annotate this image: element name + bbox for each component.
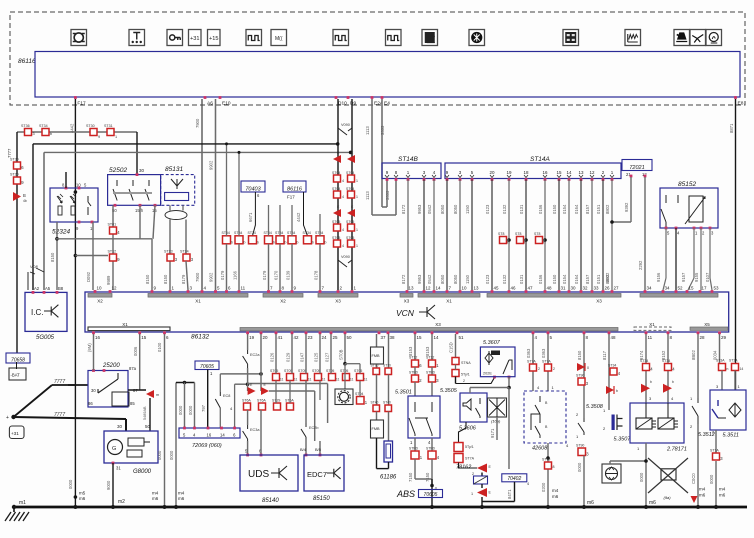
svg-text:ST30: ST30 [10, 158, 19, 162]
svg-text:13: 13 [474, 286, 480, 291]
svg-text:7150: 7150 [425, 472, 430, 482]
svg-text:47: 47 [528, 286, 534, 291]
svg-text:B: B [23, 193, 26, 198]
svg-text:ST05: ST05 [340, 369, 348, 373]
svg-text:EC3a: EC3a [250, 428, 260, 432]
svg-text:72021: 72021 [629, 165, 644, 171]
svg-text:13: 13 [578, 170, 584, 175]
svg-text:ST34: ST34 [264, 231, 272, 235]
svg-text:45: 45 [494, 286, 500, 291]
svg-text:ST05: ST05 [284, 369, 292, 373]
svg-text:25: 25 [333, 335, 339, 340]
svg-text:ST05: ST05 [332, 236, 340, 240]
svg-text:STNA: STNA [461, 361, 471, 365]
svg-text:ST34: ST34 [608, 364, 616, 368]
svg-text:D092: D092 [86, 271, 91, 282]
svg-text:8157: 8157 [585, 274, 590, 284]
svg-text:m4: m4 [178, 491, 185, 496]
svg-text:ST34: ST34 [222, 231, 230, 235]
svg-text:(10a): (10a) [491, 419, 501, 424]
svg-text:0147: 0147 [300, 352, 305, 362]
svg-text:7900: 7900 [195, 272, 200, 282]
svg-text:0542: 0542 [427, 274, 432, 284]
svg-text:9902: 9902 [209, 160, 214, 170]
svg-text:C15D: C15D [449, 342, 454, 353]
svg-text:11: 11 [280, 378, 284, 382]
svg-text:70605: 70605 [200, 364, 214, 370]
svg-text:797: 797 [201, 404, 206, 412]
svg-text:9953: 9953 [417, 274, 422, 284]
svg-text:6170: 6170 [274, 270, 279, 280]
svg-text:m1: m1 [19, 500, 26, 506]
svg-text:E4: E4 [384, 101, 390, 107]
svg-text:ST3A: ST3A [729, 359, 738, 363]
svg-text:5.3505: 5.3505 [440, 388, 458, 394]
svg-text:85152: 85152 [678, 181, 696, 188]
svg-text:30: 30 [91, 388, 96, 393]
svg-text:X2: X2 [97, 299, 103, 304]
svg-text:EDC7: EDC7 [307, 470, 327, 479]
svg-text:UDS: UDS [248, 469, 269, 480]
svg-text:15: 15 [689, 286, 695, 291]
svg-text:0363: 0363 [526, 348, 531, 358]
svg-text:11: 11 [322, 378, 326, 382]
svg-text:14: 14 [436, 286, 442, 291]
svg-text:5.3607: 5.3607 [483, 340, 501, 346]
svg-text:ST05: ST05 [270, 369, 278, 373]
svg-text:85131: 85131 [165, 166, 183, 173]
svg-text:ST79: ST79 [542, 458, 550, 462]
svg-text:m6: m6 [178, 496, 185, 501]
svg-text:42608: 42608 [532, 446, 548, 452]
svg-text:X1: X1 [649, 322, 655, 327]
svg-text:ST34: ST34 [315, 231, 323, 235]
svg-text:b: b [616, 389, 618, 393]
svg-text:3333: 3333 [380, 125, 385, 135]
svg-text:ST40: ST40 [383, 401, 391, 405]
svg-text:70402: 70402 [507, 476, 521, 482]
svg-text:ST12: ST12 [409, 356, 417, 360]
svg-text:9953: 9953 [417, 204, 422, 214]
svg-text:X5: X5 [704, 322, 710, 327]
svg-text:41: 41 [278, 335, 284, 340]
svg-text:ST6A: ST6A [242, 399, 251, 403]
svg-text:ST05: ST05 [354, 369, 362, 373]
svg-text:5489AB: 5489AB [143, 406, 147, 420]
svg-text:V090: V090 [341, 255, 350, 259]
svg-text:72069 (060): 72069 (060) [192, 443, 222, 449]
svg-text:86132: 86132 [191, 334, 209, 341]
svg-text:2: 2 [553, 367, 555, 371]
svg-text:I.C.: I.C. [31, 308, 43, 317]
svg-text:2: 2 [538, 367, 540, 371]
svg-text:A2: A2 [34, 286, 40, 291]
svg-text:9: 9 [98, 135, 100, 139]
svg-text:0178: 0178 [314, 270, 319, 280]
svg-text:9157: 9157 [681, 272, 686, 282]
svg-text:9000: 9000 [106, 480, 111, 490]
svg-text:E10: E10 [222, 101, 231, 107]
svg-text:18: 18 [523, 170, 529, 175]
svg-text:4b: 4b [23, 199, 27, 203]
svg-text:2.78171: 2.78171 [666, 447, 687, 453]
svg-text:8802: 8802 [605, 204, 610, 214]
svg-text:16: 16 [95, 335, 101, 340]
svg-text:32: 32 [583, 286, 589, 291]
svg-text:m5: m5 [79, 491, 86, 496]
svg-text:FMB: FMB [372, 354, 380, 358]
svg-text:61186: 61186 [380, 475, 397, 481]
svg-text:8802: 8802 [605, 272, 610, 282]
svg-text:b: b [273, 241, 275, 245]
svg-text:51: 51 [459, 335, 465, 340]
svg-text:38: 38 [390, 335, 396, 340]
svg-text:8150: 8150 [145, 274, 150, 284]
svg-text:m6: m6 [152, 496, 159, 501]
svg-text:1: 1 [356, 179, 358, 183]
svg-text:11: 11 [648, 335, 653, 340]
svg-text:m6: m6 [699, 493, 706, 498]
svg-text:5.3507: 5.3507 [614, 437, 632, 443]
svg-text:ST7A: ST7A [465, 457, 475, 461]
svg-text:2: 2 [463, 379, 465, 383]
svg-text:ST34: ST34 [640, 359, 648, 363]
svg-text:31: 31 [561, 286, 567, 291]
svg-text:1113: 1113 [365, 191, 370, 200]
svg-text:53: 53 [714, 286, 720, 291]
svg-text:5.3511: 5.3511 [723, 433, 739, 439]
svg-text:0131: 0131 [519, 274, 524, 284]
svg-text:b: b [244, 241, 246, 245]
svg-text:3: 3 [33, 132, 35, 136]
svg-text:b: b [325, 241, 327, 245]
svg-text:0132: 0132 [502, 274, 507, 284]
svg-text:ST7A: ST7A [542, 360, 551, 364]
svg-text:8157: 8157 [585, 204, 590, 214]
svg-text:4: 4 [342, 228, 344, 232]
svg-text:ST0B: ST0B [339, 349, 344, 360]
svg-text:7777: 7777 [54, 379, 65, 385]
svg-text:0150: 0150 [552, 204, 557, 214]
svg-text:52502: 52502 [109, 167, 127, 174]
svg-text:11: 11 [364, 378, 368, 382]
svg-text:ST31: ST31 [104, 124, 113, 128]
svg-text:20: 20 [263, 335, 269, 340]
svg-text:ST24: ST24 [180, 250, 189, 254]
svg-text:ST14A: ST14A [530, 156, 550, 163]
svg-text:8050: 8050 [453, 274, 458, 284]
svg-text:0127: 0127 [325, 352, 330, 362]
svg-text:86: 86 [88, 401, 93, 406]
svg-text:m4: m4 [699, 487, 706, 492]
svg-text:0107: 0107 [705, 272, 710, 282]
svg-text:0151: 0151 [596, 274, 601, 284]
svg-text:0000: 0000 [639, 472, 644, 482]
svg-text:ST90: ST90 [576, 444, 584, 448]
svg-text:0123: 0123 [485, 204, 490, 214]
svg-text:8172: 8172 [401, 274, 406, 284]
svg-text:0000: 0000 [577, 462, 582, 472]
svg-text:5.3508: 5.3508 [586, 404, 604, 410]
svg-text:29: 29 [721, 335, 727, 340]
svg-text:ST01: ST01 [108, 223, 117, 227]
svg-text:+31: +31 [190, 36, 200, 42]
svg-text:1113: 1113 [365, 126, 370, 135]
svg-text:0164: 0164 [574, 204, 579, 214]
svg-text:10: 10 [462, 286, 468, 291]
svg-text:ST8: ST8 [498, 232, 504, 236]
svg-text:EC8: EC8 [223, 394, 230, 398]
svg-text:B8: B8 [58, 286, 64, 291]
svg-text:52324: 52324 [52, 229, 70, 236]
svg-text:5Ty/1: 5Ty/1 [461, 373, 470, 377]
svg-text:B/4: B/4 [300, 447, 307, 452]
svg-text:+31: +31 [11, 431, 19, 436]
svg-text:m4: m4 [552, 488, 559, 493]
svg-text:0000: 0000 [709, 474, 714, 484]
svg-text:(9a): (9a) [664, 495, 672, 500]
svg-text:70403: 70403 [245, 186, 261, 192]
svg-text:12: 12 [426, 286, 432, 291]
svg-text:V090: V090 [341, 123, 350, 127]
svg-text:ST3A: ST3A [716, 359, 725, 363]
svg-text:(9M): (9M) [87, 343, 92, 352]
svg-text:X1: X1 [446, 299, 452, 304]
svg-text:0006: 0006 [133, 346, 138, 356]
svg-text:7777: 7777 [54, 412, 65, 418]
svg-text:ST1A: ST1A [710, 449, 719, 453]
svg-text:85: 85 [130, 401, 135, 406]
svg-text:ST05: ST05 [298, 369, 306, 373]
svg-text:85150: 85150 [313, 496, 330, 502]
svg-text:1: 1 [471, 492, 473, 496]
svg-text:C0C0: C0C0 [691, 473, 696, 484]
svg-text:+: + [6, 415, 9, 421]
svg-text:ST34: ST34 [39, 124, 48, 128]
svg-text:ST14B: ST14B [398, 156, 419, 163]
svg-text:0363: 0363 [541, 348, 546, 358]
svg-text:0154: 0154 [562, 204, 567, 214]
svg-text:ST05: ST05 [312, 369, 320, 373]
svg-text:0000: 0000 [157, 450, 162, 460]
svg-text:X3: X3 [596, 299, 602, 304]
svg-text:15: 15 [556, 170, 562, 175]
svg-text:b: b [50, 132, 52, 136]
svg-text:8172: 8172 [401, 204, 406, 214]
svg-text:26: 26 [605, 286, 611, 291]
svg-text:F17: F17 [287, 195, 295, 200]
svg-text:0000: 0000 [178, 405, 183, 415]
svg-text:0151: 0151 [596, 204, 601, 214]
svg-text:m4: m4 [152, 491, 159, 496]
svg-text:STND: STND [409, 447, 419, 451]
svg-text:1166: 1166 [233, 270, 238, 280]
svg-text:16: 16 [542, 170, 548, 175]
svg-text:8150: 8150 [577, 350, 582, 360]
svg-text:ST30: ST30 [86, 124, 95, 128]
svg-text:12: 12 [589, 170, 595, 175]
svg-text:0000: 0000 [188, 405, 193, 415]
svg-text:9171: 9171 [490, 428, 495, 438]
svg-text:ST70: ST70 [383, 364, 391, 368]
svg-text:8050: 8050 [453, 204, 458, 214]
svg-text:0000: 0000 [169, 450, 174, 460]
svg-text:34: 34 [665, 286, 671, 291]
svg-text:b: b [285, 241, 287, 245]
svg-text:8150: 8150 [50, 252, 55, 262]
svg-text:8B02: 8B02 [691, 350, 696, 360]
svg-text:VCN: VCN [396, 308, 415, 318]
svg-text:9902: 9902 [209, 272, 214, 282]
svg-text:ST04: ST04 [332, 171, 340, 175]
svg-text:0129: 0129 [286, 352, 291, 362]
svg-text:0132: 0132 [502, 204, 507, 214]
svg-text:8050: 8050 [440, 204, 445, 214]
svg-text:11: 11 [350, 378, 354, 382]
svg-text:b: b [231, 241, 233, 245]
svg-text:X2: X2 [280, 299, 286, 304]
svg-text:ST20: ST20 [10, 173, 19, 177]
svg-text:37: 37 [381, 335, 387, 340]
svg-text:X1: X1 [122, 322, 128, 327]
svg-text:M((: M(( [275, 36, 283, 42]
svg-text:50: 50 [347, 335, 353, 340]
svg-text:0179: 0179 [220, 270, 225, 280]
svg-text:ST04: ST04 [332, 187, 340, 191]
svg-text:STND: STND [409, 371, 419, 375]
svg-text:15: 15 [141, 335, 147, 340]
svg-text:6671: 6671 [248, 212, 253, 222]
svg-text:8117: 8117 [602, 350, 607, 360]
svg-text:b: b [650, 380, 652, 384]
svg-text:23: 23 [308, 335, 314, 340]
svg-text:D9: D9 [350, 101, 356, 107]
svg-text:ST04: ST04 [346, 171, 354, 175]
svg-text:ST04: ST04 [355, 392, 363, 396]
svg-text:19: 19 [249, 335, 255, 340]
svg-text:1: 1 [115, 135, 117, 139]
svg-text:b: b [672, 380, 674, 384]
svg-text:52: 52 [678, 286, 684, 291]
svg-text:86116: 86116 [18, 58, 36, 65]
svg-text:b: b [297, 241, 299, 245]
svg-text:0542: 0542 [427, 204, 432, 214]
svg-text:25200: 25200 [102, 363, 120, 369]
svg-text:STND: STND [426, 447, 436, 451]
svg-text:0156: 0156 [538, 204, 543, 214]
svg-text:FMB: FMB [372, 427, 380, 431]
svg-text:0100: 0100 [157, 342, 162, 352]
svg-text:87a: 87a [129, 366, 137, 371]
svg-text:19: 19 [506, 170, 512, 175]
svg-text:ST70: ST70 [371, 364, 379, 368]
svg-text:ST05: ST05 [332, 220, 340, 224]
svg-text:15: 15 [417, 335, 423, 340]
svg-text:0131: 0131 [519, 204, 524, 214]
svg-text:0: 0 [587, 366, 589, 370]
svg-text:5.3501: 5.3501 [395, 390, 412, 396]
svg-text:2292: 2292 [638, 260, 643, 270]
svg-text:5G005: 5G005 [36, 335, 55, 341]
svg-text:7777: 7777 [7, 148, 12, 158]
svg-text:ST24: ST24 [248, 231, 256, 235]
svg-text:12: 12 [112, 286, 118, 291]
svg-text:B/5: B/5 [315, 447, 322, 452]
svg-text:ST6A: ST6A [257, 399, 266, 403]
svg-text:24: 24 [322, 335, 328, 340]
svg-text:ST05: ST05 [346, 220, 354, 224]
svg-text:7150: 7150 [408, 472, 413, 482]
svg-text:0000: 0000 [68, 479, 73, 489]
svg-text:m6: m6 [587, 500, 594, 506]
svg-text:0125: 0125 [314, 352, 319, 362]
svg-text:+15: +15 [209, 36, 219, 42]
svg-text:20: 20 [489, 170, 495, 175]
svg-text:48: 48 [611, 335, 617, 340]
svg-text:2: 2 [472, 472, 474, 476]
svg-text:1150: 1150 [465, 274, 470, 284]
svg-text:9392: 9392 [624, 202, 629, 212]
svg-text:10: 10 [97, 286, 103, 291]
svg-text:ST34: ST34 [662, 359, 670, 363]
svg-text:m4: m4 [719, 487, 726, 492]
svg-text:1: 1 [356, 195, 358, 199]
svg-text:STND: STND [426, 371, 436, 375]
svg-text:1: 1 [356, 244, 358, 248]
svg-text:ST34: ST34 [287, 231, 295, 235]
svg-text:28: 28 [700, 335, 706, 340]
svg-text:70605: 70605 [424, 492, 438, 498]
svg-text:m6: m6 [649, 500, 656, 506]
svg-text:46: 46 [511, 286, 517, 291]
svg-text:X3: X3 [435, 322, 441, 327]
svg-text:4442: 4442 [296, 212, 301, 222]
svg-text:ST34: ST34 [303, 231, 311, 235]
svg-text:42: 42 [294, 335, 300, 340]
svg-text:ST05: ST05 [346, 236, 354, 240]
svg-text:202E: 202E [483, 372, 492, 376]
svg-text:14: 14 [740, 367, 744, 371]
svg-text:0123: 0123 [485, 274, 490, 284]
svg-text:0139: 0139 [286, 270, 291, 280]
svg-text:8871: 8871 [729, 123, 734, 133]
svg-text:D10: D10 [338, 101, 347, 107]
svg-text:16: 16 [207, 433, 212, 438]
svg-text:X1: X1 [195, 299, 201, 304]
svg-text:9156: 9156 [656, 272, 661, 282]
svg-text:9989: 9989 [106, 275, 111, 285]
svg-text:11: 11 [336, 378, 340, 382]
svg-text:ST23: ST23 [164, 250, 173, 254]
svg-text:8050: 8050 [440, 274, 445, 284]
svg-text:m6: m6 [552, 494, 559, 499]
svg-text:14: 14 [566, 170, 572, 175]
svg-text:1: 1 [356, 228, 358, 232]
svg-text:m6: m6 [79, 496, 86, 501]
svg-text:ST34: ST34 [234, 231, 242, 235]
svg-text:30: 30 [117, 424, 123, 429]
svg-text:4: 4 [342, 195, 344, 199]
svg-text:33: 33 [594, 286, 600, 291]
svg-text:30: 30 [571, 286, 577, 291]
svg-text:ST8: ST8 [534, 232, 540, 236]
svg-text:ST90: ST90 [576, 374, 584, 378]
svg-text:EC2a: EC2a [250, 353, 260, 357]
svg-text:9155: 9155 [694, 272, 699, 282]
svg-text:-BAT: -BAT [11, 373, 21, 378]
svg-text:8150: 8150 [163, 274, 168, 284]
svg-text:70658: 70658 [11, 357, 25, 363]
